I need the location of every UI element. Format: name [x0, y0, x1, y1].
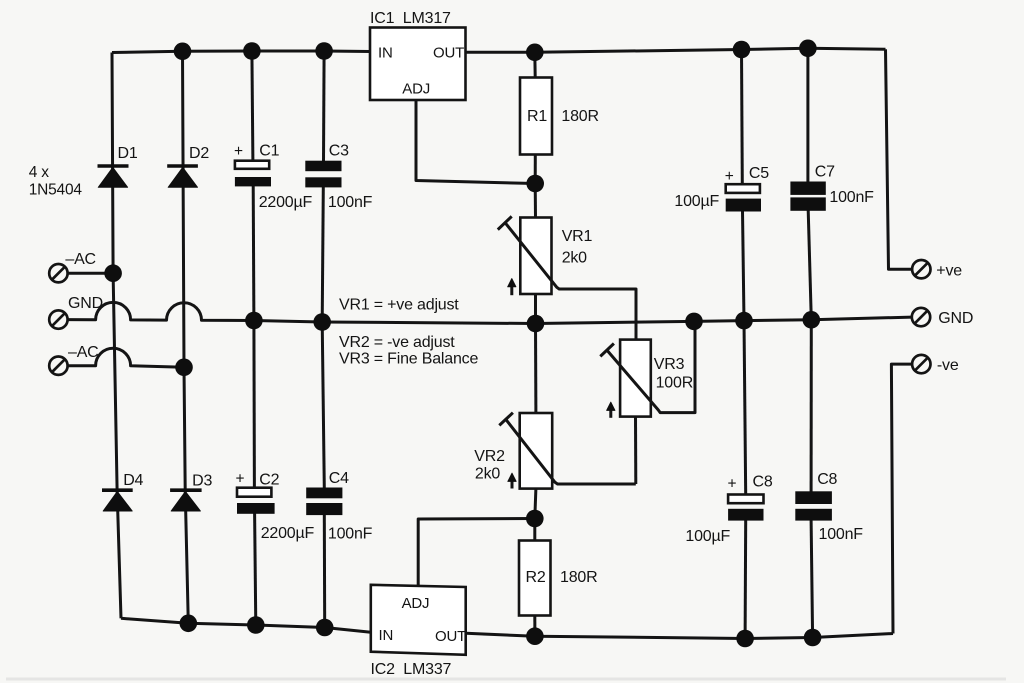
svg-text:2k0: 2k0 — [562, 250, 587, 267]
wire C4 column upper — [322, 322, 324, 488]
svg-text:IC1 LM317: IC1 LM317 — [370, 10, 451, 27]
op-amp style box IC2 LM337 — [371, 585, 466, 655]
capacitor C8 100uF — [728, 495, 763, 521]
wire C7 column lower — [808, 210, 811, 319]
wire IC1 ADJ to R1 junction — [416, 100, 535, 184]
node bottom rail C8b — [804, 629, 822, 647]
svg-text:GND: GND — [68, 295, 103, 312]
terminal -ve — [912, 355, 930, 373]
node bottom rail R2 — [526, 627, 544, 645]
svg-text:D1: D1 — [118, 145, 138, 162]
terminal -AC top — [49, 264, 67, 282]
wire GND rail with hop-overs — [68, 302, 912, 323]
node top rail R1 — [526, 44, 544, 62]
node top rail C1 — [243, 42, 261, 60]
svg-text:VR1: VR1 — [562, 228, 593, 245]
svg-text:2200µF: 2200µF — [259, 194, 313, 211]
svg-text:–AC: –AC — [65, 251, 96, 268]
node ADJ1 junction — [526, 175, 544, 193]
terminal GND right — [912, 308, 930, 326]
svg-text:IN: IN — [379, 627, 394, 644]
svg-text:–AC: –AC — [68, 344, 99, 361]
capacitor C2 — [237, 488, 275, 514]
svg-text:D2: D2 — [189, 145, 209, 162]
wire bottom rail left — [121, 618, 371, 632]
svg-text:VR2 = -ve adjust: VR2 = -ve adjust — [339, 334, 455, 351]
capacitor C3 — [305, 161, 341, 188]
node top rail C5 — [733, 41, 751, 59]
svg-text:C4: C4 — [329, 470, 349, 487]
svg-text:+: + — [728, 476, 737, 493]
potentiometer VR3 body — [620, 340, 651, 417]
wire C3 column lower — [322, 187, 323, 322]
diode D3 — [170, 490, 202, 511]
wire +ve drop — [886, 49, 912, 269]
wire -ve rise — [891, 364, 912, 633]
svg-text:C8: C8 — [817, 471, 837, 488]
terminal GND left — [49, 310, 67, 328]
svg-text:ADJ: ADJ — [402, 81, 430, 98]
wire bottom rail right — [466, 633, 893, 638]
wire C5 column lower — [743, 211, 745, 321]
VR1 arrow — [508, 279, 516, 296]
wire VR2 top lead — [534, 324, 537, 414]
node bottom rail D3 — [180, 615, 198, 633]
capacitor C7 — [790, 182, 825, 211]
wire C3 column upper — [322, 51, 326, 162]
VR3 arrow — [607, 402, 615, 418]
node top rail C7 — [799, 40, 817, 58]
svg-text:ADJ: ADJ — [402, 595, 430, 612]
svg-text:1N5404: 1N5404 — [29, 182, 83, 199]
svg-text:100nF: 100nF — [328, 194, 373, 211]
wire R2 top lead — [533, 519, 536, 541]
wire C8a column lower — [744, 520, 748, 639]
wire VR2 wiper diagonal — [505, 418, 636, 484]
wire VR1 wiper tick — [498, 216, 512, 229]
wire C2 column upper — [252, 321, 256, 489]
svg-text:C8: C8 — [753, 474, 773, 491]
svg-text:100nF: 100nF — [328, 526, 373, 543]
node ADJ2 junction — [526, 510, 544, 528]
wire IC2 ADJ to R2 junction — [418, 519, 535, 587]
node GND C7-C8 — [803, 311, 821, 329]
terminal +ve — [912, 260, 930, 278]
wire C8b column upper — [810, 320, 813, 492]
node bottom rail C2 — [247, 616, 265, 634]
wire C4 column lower — [323, 515, 326, 628]
svg-text:IC2 LM337: IC2 LM337 — [371, 661, 452, 678]
bottom scan shadow — [6, 678, 1006, 681]
svg-text:OUT: OUT — [435, 628, 466, 645]
svg-text:VR2: VR2 — [474, 448, 505, 465]
svg-text:D4: D4 — [123, 472, 143, 489]
potentiometer VR2 body — [520, 413, 553, 489]
capacitor C8 100nF — [795, 491, 832, 520]
wire VR3 bottom lead — [634, 417, 637, 484]
svg-text:180R: 180R — [560, 569, 597, 586]
diode D1 — [98, 166, 129, 187]
node bottom rail C8a — [736, 630, 754, 648]
node GND VR1-VR2 — [527, 315, 545, 333]
node GND VR3 wiper — [685, 313, 703, 331]
wire C1 column lower — [252, 186, 256, 321]
node top rail D2 — [174, 43, 192, 61]
node GND C1 — [245, 312, 263, 330]
wire VR1 bottom lead — [534, 294, 537, 324]
svg-text:4 x: 4 x — [29, 164, 50, 181]
node -AC D3 — [175, 359, 193, 377]
svg-text:100R: 100R — [656, 375, 693, 392]
svg-text:R2: R2 — [526, 569, 546, 586]
wire C8b column lower — [811, 520, 813, 638]
wire R1 bottom lead — [534, 155, 537, 184]
node GND C3 — [313, 313, 331, 331]
svg-text:D3: D3 — [192, 473, 212, 490]
VR2 arrow — [508, 473, 516, 488]
capacitor C4 — [306, 488, 342, 516]
svg-text:+: + — [234, 143, 243, 160]
resistor R1 — [520, 78, 552, 155]
node bottom rail C4 — [316, 619, 334, 637]
wire VR1 wiper diagonal — [505, 222, 636, 339]
diode D4 — [102, 490, 133, 511]
wire C5 column upper — [740, 50, 744, 185]
svg-text:C1: C1 — [259, 143, 279, 160]
wire VR2 wiper tick — [499, 413, 513, 426]
svg-text:C7: C7 — [815, 164, 835, 181]
wire C7 column upper — [806, 48, 809, 182]
terminal -AC bottom — [49, 357, 67, 375]
svg-text:100nF: 100nF — [819, 526, 864, 543]
svg-text:+: + — [725, 168, 734, 185]
svg-text:2200µF: 2200µF — [261, 525, 315, 542]
svg-text:VR3 = Fine Balance: VR3 = Fine Balance — [339, 351, 478, 368]
svg-text:100µF: 100µF — [674, 193, 719, 210]
svg-text:180R: 180R — [561, 108, 598, 125]
wire R2 bottom lead — [533, 615, 536, 636]
diode D2 — [167, 166, 198, 187]
op-amp style box IC1 LM317 — [370, 28, 466, 101]
wire C8a column upper — [744, 321, 746, 495]
wire VR2 bottom lead — [535, 488, 536, 518]
node -AC D1 — [104, 264, 122, 282]
svg-text:C5: C5 — [749, 165, 769, 182]
wire -AC bottom with hop-over — [68, 348, 184, 367]
wire VR3 wiper diagonal — [607, 321, 695, 412]
svg-text:2k0: 2k0 — [475, 466, 500, 483]
wire C1 column upper — [252, 51, 253, 162]
wire top rail left — [112, 51, 370, 53]
resistor R2 — [519, 541, 551, 616]
wire top rail right — [466, 48, 886, 52]
wire -AC top — [68, 272, 114, 275]
svg-text:VR3: VR3 — [654, 356, 685, 373]
svg-text:-ve: -ve — [937, 357, 959, 374]
wire VR1 top lead — [534, 184, 537, 218]
wire D1-D4 column — [112, 53, 121, 619]
svg-text:+: + — [236, 471, 245, 488]
svg-text:C3: C3 — [329, 143, 349, 160]
wire D2-D3 column — [183, 51, 189, 623]
node top rail C3 — [315, 42, 333, 60]
wire VR3 wiper tick — [600, 344, 614, 357]
svg-text:R1: R1 — [527, 108, 547, 125]
svg-text:IN: IN — [378, 45, 393, 62]
svg-text:GND: GND — [938, 310, 973, 327]
svg-text:100µF: 100µF — [685, 528, 730, 545]
capacitor C5 — [726, 184, 761, 211]
svg-text:VR1 = +ve adjust: VR1 = +ve adjust — [339, 297, 459, 314]
svg-text:OUT: OUT — [433, 45, 464, 62]
potentiometer VR1 body — [520, 218, 551, 295]
wire C2 column lower — [255, 513, 256, 625]
capacitor C1 — [235, 161, 271, 187]
svg-text:C2: C2 — [259, 471, 279, 488]
svg-text:+ve: +ve — [936, 262, 962, 279]
wire R1 top lead — [533, 52, 536, 77]
svg-text:100nF: 100nF — [829, 189, 874, 206]
node GND C5-C8 — [735, 312, 753, 330]
